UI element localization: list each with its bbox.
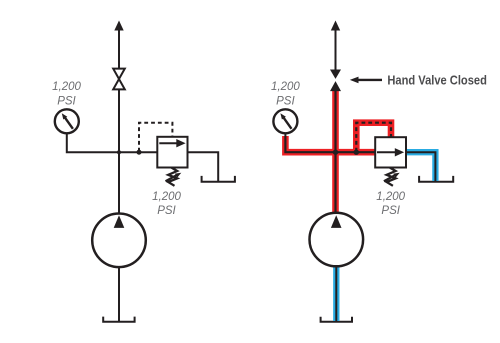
svg-text:PSI: PSI bbox=[381, 205, 400, 217]
svg-text:Hand Valve Closed: Hand Valve Closed bbox=[387, 74, 487, 88]
svg-text:PSI: PSI bbox=[157, 205, 176, 217]
svg-text:1,200: 1,200 bbox=[376, 191, 405, 203]
svg-text:PSI: PSI bbox=[57, 96, 76, 108]
svg-text:1,200: 1,200 bbox=[271, 81, 300, 93]
svg-text:PSI: PSI bbox=[276, 96, 295, 108]
svg-text:1,200: 1,200 bbox=[152, 191, 181, 203]
svg-text:1,200: 1,200 bbox=[52, 81, 81, 93]
